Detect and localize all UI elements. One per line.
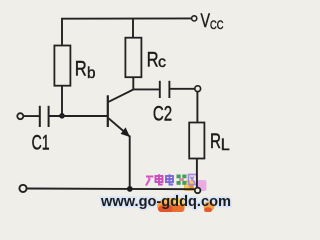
CJK char 4 QI: [177, 175, 187, 185]
svg-text:L: L: [221, 136, 230, 154]
wire C1 to base: [49, 115, 108, 117]
node VCC terminal: [192, 16, 197, 21]
wire C2 to output terminal: [169, 88, 195, 90]
svg-text:C1: C1: [32, 130, 50, 154]
wire RL bottom lead: [196, 159, 198, 188]
wire bottom rail: [27, 188, 195, 191]
node output terminal: [195, 86, 201, 92]
label Rc: [147, 48, 166, 72]
svg-text:R: R: [210, 130, 221, 153]
resistor Rb: [54, 46, 70, 86]
wire output to RL: [196, 92, 198, 123]
svg-text:C2: C2: [153, 101, 172, 125]
CJK char 2 DIAN: [156, 174, 163, 184]
wire Rc top lead: [132, 19, 134, 38]
svg-text:b: b: [87, 65, 96, 82]
CJK char 1 GUANG: [146, 177, 154, 186]
capacitor C2: [160, 81, 170, 98]
capacitor C1: [40, 106, 49, 127]
svg-text:V: V: [201, 11, 211, 32]
resistor Rc: [125, 38, 141, 77]
watermark: [100, 174, 231, 214]
junction base node: [59, 113, 65, 119]
svg-text:c: c: [158, 54, 166, 71]
yellow-orange checkered blob left of bottom-right terminal: [184, 181, 194, 192]
wire VCC top rail: [62, 18, 191, 45]
resistor RL: [189, 123, 204, 159]
node input terminal: [17, 113, 23, 119]
svg-text:R: R: [147, 48, 159, 72]
node RL bottom terminal: [195, 188, 201, 194]
CJK char 5 WANG: [189, 175, 198, 185]
node ground-left terminal: [19, 185, 26, 192]
label VCC: [201, 11, 224, 32]
CJK char 3 DIAN: [166, 174, 173, 184]
wire emitter to ground rail: [129, 136, 131, 190]
transistor Q1: [108, 90, 134, 138]
svg-text:www.go-gddq.com: www.go-gddq.com: [100, 193, 231, 210]
label RL: [210, 130, 230, 154]
wire Rb bottom lead: [61, 86, 63, 116]
pink blob right of bottom-right terminal: [197, 180, 207, 191]
junction emitter-ground: [127, 186, 133, 192]
svg-text:R: R: [75, 56, 87, 80]
svg-text:CC: CC: [210, 20, 224, 32]
wire input to C1: [23, 115, 40, 117]
label Rb: [75, 56, 96, 82]
wire collector node: [133, 77, 160, 89]
